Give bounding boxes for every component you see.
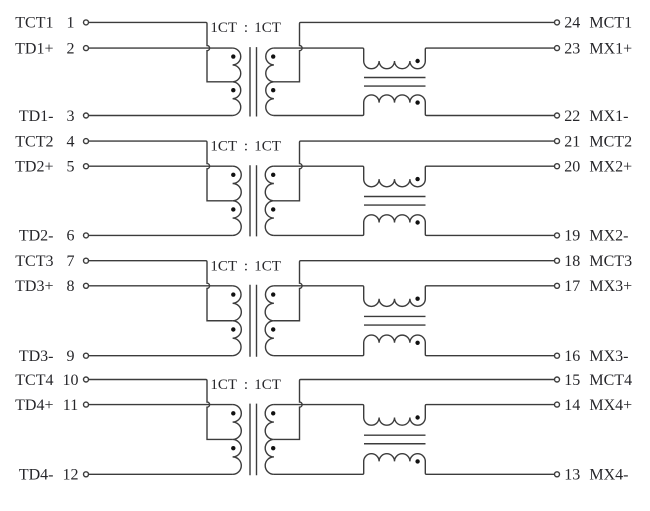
svg-text:MX1+: MX1+ xyxy=(589,40,632,57)
svg-text:TD3+: TD3+ xyxy=(15,278,53,295)
pin 1 terminal circle xyxy=(84,20,89,25)
T2 secondary polarity dot (top half) xyxy=(271,173,275,177)
T4 primary polarity dot (bottom half) xyxy=(231,446,235,450)
svg-text:1CT: 1CT xyxy=(254,258,281,274)
wire choke L4 to pin 13 xyxy=(427,473,555,475)
wire T1 secondary bottom to choke L1 xyxy=(274,115,363,117)
transformer T2 core xyxy=(250,165,257,236)
wire choke L4 to pin 14 xyxy=(427,404,555,406)
T2 primary polarity dot (top half) xyxy=(231,173,235,177)
transformer T2 secondary winding xyxy=(265,166,274,235)
pin 10 terminal circle xyxy=(84,377,89,382)
svg-text:3: 3 xyxy=(67,108,75,125)
wire T2 secondary top to choke L2 xyxy=(274,165,363,167)
svg-text:TCT2: TCT2 xyxy=(15,133,53,150)
svg-text:15: 15 xyxy=(564,372,580,389)
wire TD3+ pin 8 to T3 primary top xyxy=(89,285,233,287)
transformer T1 core xyxy=(250,47,257,116)
wire choke L1 to pin 22 xyxy=(427,115,555,117)
choke L4 core xyxy=(364,435,426,444)
wire TCT3 pin 7 to T3 primary center tap (hop over pin 8 wire) xyxy=(89,261,233,321)
svg-text:8: 8 xyxy=(67,278,75,295)
pin 15 terminal circle xyxy=(555,377,560,382)
svg-text:MX4+: MX4+ xyxy=(589,397,632,414)
svg-text::: : xyxy=(244,377,248,393)
wire choke L3 to pin 17 xyxy=(427,285,555,287)
L1 top winding polarity dot xyxy=(415,59,419,63)
transformer T4 primary winding xyxy=(233,405,242,475)
transformer T4 core xyxy=(250,404,257,476)
pin 21 terminal circle xyxy=(555,139,560,144)
svg-text:MCT4: MCT4 xyxy=(589,372,632,389)
pin 7 terminal circle xyxy=(84,258,89,263)
wire T3 secondary bottom to choke L3 xyxy=(274,355,363,357)
svg-text:MX1-: MX1- xyxy=(589,108,628,125)
transformer T2 primary winding xyxy=(233,166,242,235)
svg-text:18: 18 xyxy=(564,253,580,270)
T4 secondary polarity dot (bottom half) xyxy=(271,446,275,450)
choke L2 core xyxy=(364,197,426,206)
wire TCT1 pin 1 to T1 primary center tap (hop over pin 2 wire) xyxy=(89,22,233,81)
svg-text:MCT2: MCT2 xyxy=(589,133,632,150)
svg-text:21: 21 xyxy=(564,133,580,150)
pin 22 terminal circle xyxy=(555,113,560,118)
pin 23 terminal circle xyxy=(555,46,560,51)
wire T2 secondary bottom to choke L2 xyxy=(274,234,363,236)
L4 top winding polarity dot xyxy=(415,415,419,419)
T1 secondary polarity dot (bottom half) xyxy=(271,88,275,92)
svg-text:6: 6 xyxy=(67,228,75,245)
wire T3 secondary top to choke L3 xyxy=(274,285,363,287)
choke L1 top winding xyxy=(363,48,427,69)
T1 secondary polarity dot (top half) xyxy=(271,54,275,58)
svg-text::: : xyxy=(244,258,248,274)
wire choke L1 to pin 23 xyxy=(427,47,555,49)
transformer T3 core xyxy=(250,285,257,357)
wire TD3- pin 9 to T3 primary bottom xyxy=(89,355,233,357)
svg-text:1CT: 1CT xyxy=(254,20,281,36)
svg-text:1CT: 1CT xyxy=(254,139,281,155)
T4 secondary polarity dot (top half) xyxy=(271,411,275,415)
T3 primary polarity dot (bottom half) xyxy=(231,327,235,331)
choke L2 top winding xyxy=(363,166,427,187)
pin 20 terminal circle xyxy=(555,164,560,169)
wire TD2- pin 6 to T2 primary bottom xyxy=(89,234,233,236)
svg-text:TD2-: TD2- xyxy=(19,228,54,245)
choke L1 core xyxy=(364,78,426,87)
svg-text:MX4-: MX4- xyxy=(589,467,628,484)
L3 top winding polarity dot xyxy=(415,297,419,301)
svg-text:19: 19 xyxy=(564,228,580,245)
T1 primary polarity dot (bottom half) xyxy=(231,88,235,92)
svg-text:9: 9 xyxy=(67,348,75,365)
choke L4 bottom winding xyxy=(363,454,427,475)
pin 6 terminal circle xyxy=(84,233,89,238)
svg-text:7: 7 xyxy=(67,253,75,270)
svg-text:1CT: 1CT xyxy=(210,377,237,393)
svg-text:16: 16 xyxy=(564,348,580,365)
svg-text:14: 14 xyxy=(564,397,580,414)
choke L4 top winding xyxy=(363,405,427,426)
wire MCT1 pin 24 to T1 secondary center tap (hop over pin 23 wire) xyxy=(274,22,554,81)
svg-text:13: 13 xyxy=(564,467,580,484)
svg-text::: : xyxy=(244,20,248,36)
svg-text:MX3-: MX3- xyxy=(589,348,628,365)
wire TD4+ pin 11 to T4 primary top xyxy=(89,404,233,406)
wire TCT2 pin 4 to T2 primary center tap (hop over pin 5 wire) xyxy=(89,141,233,201)
transformer T3 primary winding xyxy=(233,286,242,356)
pin 17 terminal circle xyxy=(555,283,560,288)
transformer T3 secondary winding xyxy=(265,286,274,356)
svg-text:1CT: 1CT xyxy=(210,20,237,36)
svg-text:1CT: 1CT xyxy=(210,139,237,155)
T2 primary polarity dot (bottom half) xyxy=(231,207,235,211)
wire choke L2 to pin 20 xyxy=(427,165,555,167)
wire TCT4 pin 10 to T4 primary center tap (hop over pin 11 wire) xyxy=(89,380,233,440)
svg-text:12: 12 xyxy=(63,467,79,484)
pin 18 terminal circle xyxy=(555,258,560,263)
wire MCT4 pin 15 to T4 secondary center tap (hop over pin 14 wire) xyxy=(274,380,554,440)
svg-text:24: 24 xyxy=(564,15,580,32)
wire TD1- pin 3 to T1 primary bottom xyxy=(89,115,233,117)
transformer T1 secondary winding xyxy=(266,48,274,115)
svg-text:TD1+: TD1+ xyxy=(15,40,53,57)
T2 secondary polarity dot (bottom half) xyxy=(271,207,275,211)
T1 primary polarity dot (top half) xyxy=(231,54,235,58)
T3 primary polarity dot (top half) xyxy=(231,292,235,296)
pin 8 terminal circle xyxy=(84,283,89,288)
svg-text:TD3-: TD3- xyxy=(19,348,54,365)
svg-text:TCT4: TCT4 xyxy=(15,372,53,389)
pin 11 terminal circle xyxy=(84,402,89,407)
svg-text:1CT: 1CT xyxy=(254,377,281,393)
L3 bottom winding polarity dot xyxy=(415,341,419,345)
pin 3 terminal circle xyxy=(84,113,89,118)
svg-text:TD4-: TD4- xyxy=(19,467,54,484)
wire TD4- pin 12 to T4 primary bottom xyxy=(89,473,233,475)
choke L3 bottom winding xyxy=(363,335,427,356)
svg-text:5: 5 xyxy=(67,159,75,176)
choke L2 bottom winding xyxy=(363,215,427,236)
transformer T1 primary winding xyxy=(233,48,241,115)
pin 16 terminal circle xyxy=(555,353,560,358)
wire T4 secondary top to choke L4 xyxy=(274,404,363,406)
svg-text:1: 1 xyxy=(67,15,75,32)
svg-text:23: 23 xyxy=(564,40,580,57)
pin 19 terminal circle xyxy=(555,233,560,238)
pin 2 terminal circle xyxy=(84,46,89,51)
svg-text:TD1-: TD1- xyxy=(19,108,54,125)
svg-text:4: 4 xyxy=(67,133,75,150)
pin 4 terminal circle xyxy=(84,139,89,144)
svg-text::: : xyxy=(244,139,248,155)
L2 top winding polarity dot xyxy=(415,177,419,181)
svg-text:MX2+: MX2+ xyxy=(589,159,632,176)
svg-text:17: 17 xyxy=(564,278,580,295)
svg-text:TCT1: TCT1 xyxy=(15,15,53,32)
svg-text:MX2-: MX2- xyxy=(589,228,628,245)
choke L3 core xyxy=(364,316,426,325)
svg-text:22: 22 xyxy=(564,108,580,125)
T3 secondary polarity dot (bottom half) xyxy=(271,327,275,331)
L1 bottom winding polarity dot xyxy=(415,100,419,104)
wire choke L3 to pin 16 xyxy=(427,355,555,357)
svg-text:10: 10 xyxy=(63,372,79,389)
svg-text:TD2+: TD2+ xyxy=(15,159,53,176)
wire T1 secondary top to choke L1 xyxy=(274,47,363,49)
choke L3 top winding xyxy=(363,286,427,307)
T3 secondary polarity dot (top half) xyxy=(271,292,275,296)
wire choke L2 to pin 19 xyxy=(427,234,555,236)
L4 bottom winding polarity dot xyxy=(415,459,419,463)
pin 13 terminal circle xyxy=(555,472,560,477)
pin 5 terminal circle xyxy=(84,164,89,169)
pin 9 terminal circle xyxy=(84,353,89,358)
svg-text:1CT: 1CT xyxy=(210,258,237,274)
svg-text:11: 11 xyxy=(63,397,78,414)
transformer T4 secondary winding xyxy=(265,405,274,475)
wire T4 secondary bottom to choke L4 xyxy=(274,473,363,475)
svg-text:20: 20 xyxy=(564,159,580,176)
svg-text:TCT3: TCT3 xyxy=(15,253,53,270)
pin 12 terminal circle xyxy=(84,472,89,477)
pin 24 terminal circle xyxy=(555,20,560,25)
svg-text:MX3+: MX3+ xyxy=(589,278,632,295)
pin 14 terminal circle xyxy=(555,402,560,407)
svg-text:2: 2 xyxy=(67,40,75,57)
L2 bottom winding polarity dot xyxy=(415,220,419,224)
wire MCT2 pin 21 to T2 secondary center tap (hop over pin 20 wire) xyxy=(274,141,554,201)
wire TD1+ pin 2 to T1 primary top xyxy=(89,47,233,49)
choke L1 bottom winding xyxy=(363,95,427,116)
svg-text:TD4+: TD4+ xyxy=(15,397,53,414)
svg-text:MCT3: MCT3 xyxy=(589,253,632,270)
T4 primary polarity dot (top half) xyxy=(231,411,235,415)
wire TD2+ pin 5 to T2 primary top xyxy=(89,165,233,167)
svg-text:MCT1: MCT1 xyxy=(589,15,632,32)
wire MCT3 pin 18 to T3 secondary center tap (hop over pin 17 wire) xyxy=(274,261,554,321)
